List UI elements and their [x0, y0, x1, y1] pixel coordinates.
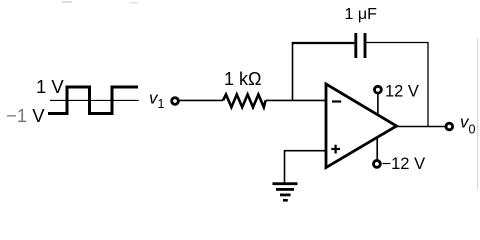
faint cropped text smudge top left	[62, 1, 72, 3]
op-amp inverting input minus symbol	[332, 100, 341, 102]
wire feedback vertical up from junction	[292, 43, 294, 101]
wire capacitor to right vertical	[367, 42, 429, 44]
wire feedback right vertical down to output	[427, 42, 429, 127]
capacitor C1 1 uF right plate	[364, 33, 367, 58]
faint page-edge rule right	[477, 38, 478, 190]
svg-text:−1 V: −1 V	[6, 105, 45, 126]
wire ground stem vertical	[284, 150, 286, 184]
square-wave zero axis line	[50, 99, 139, 101]
capacitor C1 1 uF left plate	[354, 33, 357, 58]
op-amp U1 triangle	[326, 84, 397, 168]
wire v1 terminal to resistor	[180, 99, 224, 101]
wire non-inverting input to ground stem	[285, 150, 327, 152]
wire op-amp output	[397, 126, 445, 128]
wire resistor to op-amp inverting input	[266, 99, 327, 101]
wire +12V terminal to op-amp top edge	[377, 94, 379, 116]
square-wave source waveform	[48, 87, 138, 114]
input terminal circle v1	[172, 98, 179, 105]
op-amp non-inverting input plus symbol	[331, 145, 340, 154]
wire feedback top rail to capacitor	[292, 42, 355, 44]
svg-text:1 kΩ: 1 kΩ	[224, 69, 261, 89]
wire -12V terminal to op-amp bottom edge	[376, 138, 378, 160]
+12 V supply terminal circle	[375, 86, 382, 93]
output terminal circle v0	[446, 123, 453, 130]
svg-text:1 μF: 1 μF	[345, 6, 378, 23]
svg-text:1 V: 1 V	[36, 76, 64, 97]
svg-text:−12 V: −12 V	[382, 155, 426, 173]
resistor R1 1 kOhm	[223, 95, 266, 108]
svg-text:v0: v0	[460, 113, 476, 137]
svg-text:12 V: 12 V	[385, 83, 419, 101]
faint cropped text smudge top right	[130, 2, 138, 4]
svg-text:v1: v1	[149, 89, 165, 112]
ground symbol	[273, 182, 298, 201]
-12 V supply terminal circle	[374, 161, 381, 168]
